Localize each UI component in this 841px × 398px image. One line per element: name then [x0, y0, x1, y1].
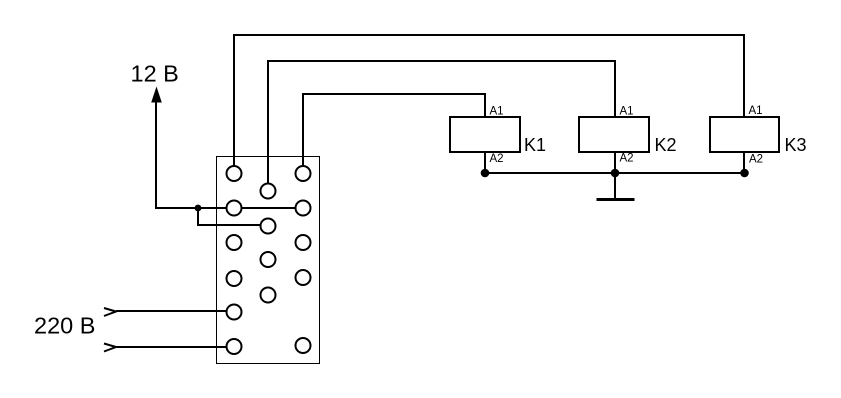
terminal R5: [296, 338, 311, 353]
svg-text:12 В: 12 В: [131, 61, 179, 87]
arrowhead 220V neutral: [104, 344, 116, 352]
svg-text:A1: A1: [620, 106, 634, 118]
relay coil K2: [579, 117, 649, 152]
wire inner top run to relay K1 coil A1: [303, 94, 485, 173]
svg-text:K2: K2: [655, 135, 677, 155]
wire 220V neutral input to terminal: [116, 346, 234, 348]
wire K3 A2 pin: [743, 152, 745, 173]
node junction K3 A2: [740, 169, 749, 178]
terminal L6: [227, 339, 242, 354]
wire branch from node down to middle column terminal: [198, 208, 268, 225]
terminal R1: [296, 166, 311, 181]
ground: [614, 173, 616, 198]
wire from 12V arrow down and right through terminal block row 2: [156, 98, 303, 208]
terminal L1: [227, 166, 242, 181]
terminal M2: [261, 219, 276, 234]
node junction 12V branch: [195, 205, 202, 212]
arrowhead 220V phase: [104, 308, 116, 316]
svg-text:A2: A2: [490, 153, 504, 165]
svg-text:A2: A2: [749, 154, 763, 166]
terminal L5: [227, 305, 242, 320]
node junction K2 A2: [611, 169, 620, 178]
wire outer top run to relay K3 coil A1: [234, 35, 744, 173]
svg-text:220 В: 220 В: [34, 313, 95, 339]
svg-text:K1: K1: [524, 135, 546, 155]
wire K2 A2 pin: [614, 152, 616, 173]
relay coil K3: [710, 117, 779, 152]
relay coil K1: [450, 117, 520, 152]
wire K1 A2 pin: [484, 152, 486, 173]
wire 220V phase input to terminal: [116, 310, 234, 312]
node junction K1 A2: [481, 169, 490, 178]
svg-text:K3: K3: [785, 135, 807, 155]
svg-text:A1: A1: [749, 105, 763, 117]
arrowhead 12V supply: [151, 87, 162, 103]
terminal M4: [261, 288, 276, 303]
wire A2 common bus: [485, 172, 745, 174]
terminal R2: [296, 201, 311, 216]
terminal L3: [227, 235, 242, 250]
wire middle top run to relay K2 coil A1: [268, 61, 615, 191]
terminal R4: [296, 270, 311, 285]
terminal L4: [227, 271, 242, 286]
svg-text:A1: A1: [490, 106, 504, 118]
svg-text:A2: A2: [620, 153, 634, 165]
terminal block outline: [217, 157, 320, 364]
terminal M3: [261, 252, 276, 267]
terminal M1: [261, 184, 276, 199]
terminal R3: [296, 235, 311, 250]
terminal L2: [227, 201, 242, 216]
